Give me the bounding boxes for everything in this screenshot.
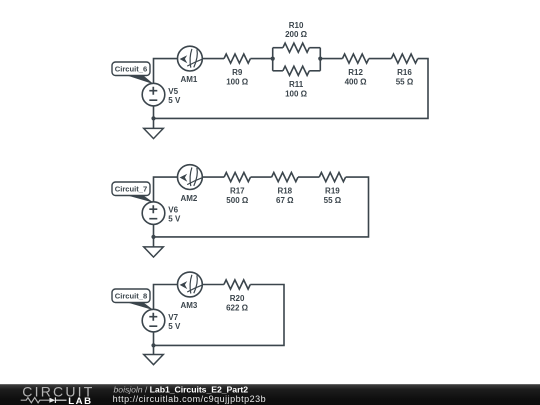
ground [144, 128, 164, 138]
resistor R11 [283, 66, 309, 75]
svg-text:R16: R16 [397, 68, 412, 77]
svg-text:V5: V5 [168, 87, 178, 96]
svg-text:55 Ω: 55 Ω [324, 196, 342, 205]
wire right side and bottom rail circuit 3 [154, 285, 285, 346]
svg-text:67 Ω: 67 Ω [276, 196, 294, 205]
wire parallel to R12 [320, 58, 342, 60]
svg-text:V6: V6 [168, 205, 178, 214]
wire right side and bottom rail circuit 1 [154, 59, 429, 119]
wire V7 bottom to ground [153, 332, 155, 355]
svg-text:AM1: AM1 [180, 75, 197, 84]
svg-text:55 Ω: 55 Ω [396, 78, 414, 87]
svg-text:100 Ω: 100 Ω [285, 90, 308, 99]
svg-text:V7: V7 [168, 313, 178, 322]
ground [144, 355, 164, 365]
svg-text:Circuit_8: Circuit_8 [115, 292, 148, 301]
svg-text:200 Ω: 200 Ω [285, 30, 308, 39]
svg-text:R12: R12 [348, 68, 363, 77]
svg-text:500 Ω: 500 Ω [226, 196, 249, 205]
svg-text:R19: R19 [325, 187, 340, 196]
wire R17 to R18 [251, 176, 272, 178]
ammeter AM1 [178, 46, 203, 71]
parallel branch right vertical [319, 48, 321, 71]
resistor R16 [391, 54, 417, 63]
voltage source V5 [142, 83, 165, 106]
CircuitLab logo [21, 383, 95, 405]
resistor R20 [224, 280, 250, 289]
svg-text:5 V: 5 V [168, 322, 181, 331]
wire V5 bottom to ground [153, 106, 155, 128]
ammeter AM3 [178, 272, 203, 297]
voltage source V6 [142, 202, 165, 225]
voltage source V7 [142, 309, 165, 332]
resistor R9 [224, 54, 250, 63]
svg-text:R17: R17 [230, 187, 245, 196]
svg-text:http://circuitlab.com/c9qujjpb: http://circuitlab.com/c9qujjpbtp23b [113, 394, 267, 404]
svg-text:5 V: 5 V [168, 96, 181, 105]
callout label Circuit_7 [112, 182, 154, 203]
wire R9 to parallel node [250, 58, 272, 60]
resistor R18 [272, 173, 298, 182]
node junction bottom rail circuit 3 [151, 343, 155, 347]
svg-text:AM3: AM3 [180, 301, 197, 310]
wire V5 top to AM1 [154, 59, 178, 84]
parallel branch left vertical [272, 48, 274, 71]
wire AM2 to R17 [202, 176, 224, 178]
svg-text:R9: R9 [232, 68, 243, 77]
wire V7 top to AM3 [154, 285, 178, 310]
svg-text:5 V: 5 V [168, 215, 181, 224]
node junction left of parallel [271, 57, 275, 61]
ammeter AM2 [178, 165, 203, 190]
svg-text:R10: R10 [289, 21, 304, 30]
wire AM3 to R20 [202, 284, 224, 286]
svg-text:R11: R11 [289, 80, 304, 89]
ground [144, 247, 164, 257]
svg-text:Circuit_7: Circuit_7 [115, 185, 148, 194]
wire bottom branch right [309, 70, 320, 72]
resistor R12 [342, 54, 368, 63]
resistor R17 [224, 173, 250, 182]
wire bottom branch left [273, 70, 283, 72]
svg-text:LAB: LAB [68, 396, 93, 405]
svg-text:AM2: AM2 [180, 194, 197, 203]
wire right side and bottom rail circuit 2 [154, 177, 369, 237]
callout label Circuit_8 [112, 289, 154, 310]
svg-text:622 Ω: 622 Ω [226, 303, 249, 312]
node junction bottom rail circuit 1 [151, 116, 155, 120]
wire R18 to R19 [298, 176, 319, 178]
wire top branch left [273, 47, 283, 49]
wire AM1 to R9 [202, 58, 224, 60]
svg-text:400 Ω: 400 Ω [345, 78, 368, 87]
node junction right of parallel [318, 57, 322, 61]
svg-text:100 Ω: 100 Ω [226, 78, 249, 87]
resistor R19 [319, 173, 345, 182]
resistor R10 [283, 43, 309, 52]
wire R12 to R16 [369, 58, 392, 60]
wire V6 top to AM2 [154, 177, 178, 202]
svg-text:Circuit_6: Circuit_6 [115, 65, 148, 74]
callout label Circuit_6 [112, 62, 154, 84]
svg-text:R20: R20 [230, 294, 245, 303]
wire top branch right [309, 47, 320, 49]
node junction bottom rail circuit 2 [151, 235, 155, 239]
svg-text:R18: R18 [277, 187, 292, 196]
wire V6 bottom to ground [153, 224, 155, 247]
